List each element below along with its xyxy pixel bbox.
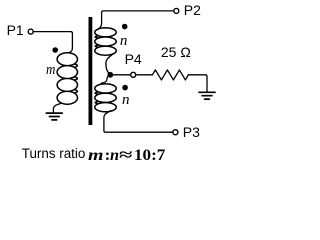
wire P1 to primary: [33, 32, 72, 48]
label m primary: [46, 63, 55, 78]
polarity dot secondary bottom: [122, 85, 128, 91]
label P2: [184, 3, 201, 17]
label 25 ohm: [161, 45, 191, 59]
ground left: [46, 113, 62, 120]
label P4: [125, 52, 142, 66]
label P1: [7, 23, 24, 37]
secondary bottom winding n: [95, 84, 117, 112]
polarity dot primary: [52, 47, 58, 53]
terminal P3: [173, 130, 178, 135]
wire secondary bottom exit to P3: [104, 111, 172, 133]
label n secondary top: [120, 34, 128, 49]
wire primary entry curve: [67, 48, 72, 53]
terminal P1: [28, 29, 33, 34]
wire primary exit to ground: [53, 103, 61, 112]
wire secondary top entry curve: [96, 24, 102, 31]
center tap wire to P4: [110, 74, 130, 76]
terminal P4: [131, 72, 136, 77]
wire P4 to resistor: [136, 74, 153, 76]
caption: Turns ratio: [22, 147, 86, 160]
secondary top winding n: [95, 28, 117, 55]
wire center tap to secondary bottom entry: [101, 76, 109, 84]
junction node center tap: [107, 72, 113, 78]
resistor R 25 ohm: [152, 70, 188, 80]
transformer core: [89, 17, 93, 125]
wire secondary top exit to center tap: [106, 54, 114, 75]
label P3: [183, 125, 200, 139]
label n secondary bottom: [122, 93, 130, 108]
primary winding m: [57, 53, 77, 104]
caption math m:n approx 10:7: [88, 147, 103, 163]
wire P2 to secondary top: [102, 11, 174, 24]
terminal P2: [174, 8, 179, 13]
ground right: [199, 92, 215, 99]
polarity dot secondary top: [122, 24, 128, 30]
wire resistor to right ground: [188, 75, 207, 92]
